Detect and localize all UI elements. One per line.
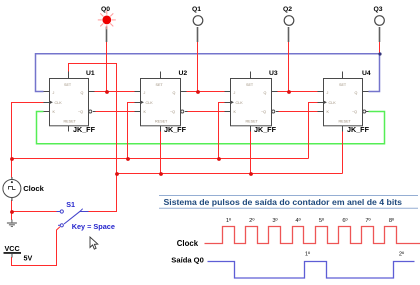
- svg-text:1º: 1º: [226, 217, 232, 224]
- wire Q1 riser: [197, 42, 199, 92]
- flip-flop U3: [225, 70, 279, 134]
- svg-text:5º: 5º: [319, 217, 325, 224]
- svg-text:Q2: Q2: [283, 6, 292, 13]
- clock source: [3, 177, 45, 201]
- wire U2.~Q to U3.K: [188, 111, 225, 113]
- svg-text:Q: Q: [355, 91, 358, 95]
- wire U2 RESET drop: [160, 132, 162, 174]
- svg-text:1º: 1º: [305, 251, 311, 258]
- wire ~Q3 feedback (green): [37, 112, 385, 144]
- svg-text:RESET: RESET: [339, 120, 352, 124]
- svg-text:CLK: CLK: [146, 101, 154, 105]
- svg-text:3º: 3º: [272, 217, 278, 224]
- wire Q3 riser: [379, 42, 381, 54]
- flip-flop U2: [135, 70, 188, 134]
- svg-text:6º: 6º: [342, 217, 348, 224]
- mouse cursor: [90, 237, 98, 249]
- wire U4 RESET drop: [342, 132, 344, 174]
- svg-text:Q0: Q0: [101, 6, 110, 13]
- svg-text:CLK: CLK: [329, 101, 337, 105]
- svg-text:J: J: [53, 91, 55, 95]
- svg-text:Q: Q: [81, 91, 84, 95]
- flip-flop U4: [318, 70, 371, 134]
- svg-text:U1: U1: [86, 70, 95, 77]
- junction CLK bus U3: [217, 157, 221, 161]
- flip-flop U1: [44, 70, 96, 134]
- svg-text:J: J: [144, 91, 146, 95]
- svg-text:7º: 7º: [365, 217, 371, 224]
- wire U3 CLK riser: [219, 103, 225, 159]
- wire U4 CLK riser: [309, 103, 318, 159]
- wire Q3 feedback (blue): [36, 54, 380, 92]
- svg-text:Sistema de pulsos de saída do: Sistema de pulsos de saída do contador e…: [164, 197, 403, 207]
- Q0 waveform: [208, 262, 415, 279]
- svg-text:Q: Q: [173, 91, 176, 95]
- svg-text:~Q: ~Q: [352, 110, 357, 114]
- svg-text:Clock: Clock: [23, 184, 44, 193]
- waveform pulse numbers: [226, 217, 395, 224]
- svg-text:SET: SET: [156, 83, 164, 87]
- timing diagram header: [159, 196, 418, 209]
- wire U2 CLK riser: [128, 103, 135, 159]
- svg-text:~Q: ~Q: [170, 110, 175, 114]
- wire U1.~Q to U2.K: [96, 111, 135, 113]
- svg-text:~Q: ~Q: [261, 110, 266, 114]
- svg-text:Q3: Q3: [374, 6, 383, 13]
- wire U2.Q to U3.J: [187, 91, 225, 93]
- svg-text:VCC: VCC: [5, 244, 20, 253]
- svg-text:S1: S1: [66, 200, 75, 209]
- svg-text:CLK: CLK: [236, 101, 244, 105]
- svg-text:Clock: Clock: [177, 239, 199, 248]
- wire clock to U1 CLK: [12, 103, 44, 178]
- wire clock bottom: [11, 200, 13, 220]
- ground: [7, 220, 17, 227]
- svg-text:U4: U4: [362, 70, 371, 77]
- switch S1: [57, 200, 115, 231]
- junction Q3/blue: [378, 52, 381, 55]
- svg-text:SET: SET: [64, 83, 72, 87]
- probe Q2: [283, 6, 294, 42]
- Q0 waveform numbers: [305, 251, 405, 258]
- junction Q0: [105, 90, 109, 94]
- junction CLK bus U2: [126, 157, 130, 161]
- wire U1.Q to U2.J: [95, 91, 135, 93]
- junction RESET bus U3: [249, 172, 253, 176]
- svg-text:8º: 8º: [389, 217, 395, 224]
- svg-text:Q1: Q1: [192, 6, 201, 13]
- wire S1 riser: [89, 174, 117, 212]
- svg-text:Key = Space: Key = Space: [72, 222, 115, 231]
- wire VCC to switch: [12, 227, 61, 266]
- power VCC 5V: [4, 244, 33, 262]
- svg-text:SET: SET: [339, 83, 347, 87]
- svg-text:CLK: CLK: [55, 101, 63, 105]
- junction clock/CLK bus: [10, 157, 14, 161]
- wire U3.Q to U4.J: [278, 91, 318, 93]
- wire RESET bus: [117, 173, 343, 175]
- svg-text:J: J: [234, 91, 236, 95]
- svg-text:J: J: [327, 91, 329, 95]
- svg-text:Saída Q0: Saída Q0: [171, 256, 204, 265]
- wire clock to S1: [12, 211, 57, 213]
- svg-text:RESET: RESET: [246, 120, 259, 124]
- svg-text:JK_FF: JK_FF: [347, 125, 370, 134]
- probe Q1: [192, 6, 203, 42]
- svg-text:JK_FF: JK_FF: [164, 125, 187, 134]
- clock waveform: [205, 227, 420, 244]
- svg-text:~Q: ~Q: [78, 110, 83, 114]
- probe Q0 (lit LED): [98, 6, 116, 42]
- svg-text:RESET: RESET: [64, 120, 77, 124]
- svg-text:RESET: RESET: [155, 120, 168, 124]
- wire U1 SET to bus: [69, 64, 117, 174]
- junction Q2: [287, 90, 291, 94]
- wire Q2 riser: [288, 42, 290, 92]
- junction RESET bus S1: [115, 172, 119, 176]
- junction RESET bus U2: [159, 172, 163, 176]
- wire U3.~Q to U4.K: [279, 111, 318, 113]
- wire Q0 riser: [106, 42, 108, 92]
- svg-text:Q: Q: [264, 91, 267, 95]
- probe Q3: [374, 6, 385, 42]
- svg-text:U3: U3: [269, 70, 278, 77]
- junction Q1: [196, 90, 200, 94]
- svg-text:2º: 2º: [249, 217, 255, 224]
- svg-text:JK_FF: JK_FF: [73, 125, 96, 134]
- svg-text:4º: 4º: [295, 217, 301, 224]
- svg-text:SET: SET: [246, 83, 254, 87]
- svg-text:5V: 5V: [24, 253, 33, 262]
- svg-text:U2: U2: [179, 70, 188, 77]
- svg-text:JK_FF: JK_FF: [254, 125, 277, 134]
- wire U3 RESET drop: [250, 132, 252, 174]
- junction clock/S1: [10, 210, 14, 214]
- svg-text:2º: 2º: [399, 251, 405, 258]
- wire CLK bus: [12, 158, 309, 160]
